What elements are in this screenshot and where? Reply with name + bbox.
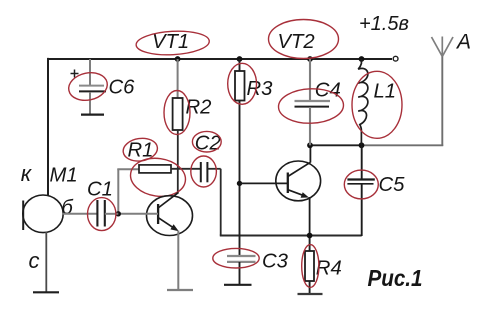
wire VT2 emitter down: [309, 197, 311, 236]
svg-text:Рис.1: Рис.1: [368, 265, 423, 291]
annotation ellipse around R1 body: [128, 155, 188, 200]
ground below R4: [298, 293, 323, 295]
annotation ellipse around R2: [164, 91, 190, 135]
capacitor C5: [347, 145, 374, 236]
inductor L1: [358, 59, 368, 145]
annotation ellipse around L1: [352, 71, 402, 138]
svg-text:VT2: VT2: [278, 31, 315, 53]
wire bottom line: [220, 235, 362, 237]
svg-text:с: с: [29, 248, 40, 273]
resistor R1: [117, 165, 200, 214]
node junction R3/VT2 base: [237, 181, 242, 186]
node junction VT1/R2 on rail: [175, 56, 181, 62]
wire left frame: [47, 58, 49, 197]
ground below VT1: [167, 289, 193, 291]
node open terminal +1.5v: [393, 56, 398, 61]
annotation ellipse around C3: [213, 248, 259, 268]
node junction emitter/R4: [307, 233, 313, 239]
annotation ellipse around C2 label: [192, 131, 221, 152]
capacitor C4: [295, 59, 331, 145]
svg-text:A: A: [455, 31, 471, 54]
node junction L1 on rail: [359, 56, 365, 62]
wire M1 output to C1: [63, 213, 97, 215]
svg-text:C5: C5: [379, 174, 406, 196]
wire VT1 base from C1: [118, 213, 158, 215]
wire top supply rail: [48, 58, 392, 60]
capacitor C2: [201, 162, 221, 182]
svg-text:R3: R3: [247, 78, 274, 100]
ground below M1: [33, 291, 59, 293]
transistor VT2: [276, 161, 321, 201]
antenna A: [432, 37, 454, 147]
annotation ellipse around C4: [278, 88, 344, 125]
ground below C3: [224, 284, 252, 286]
node junction VT2/C4 on rail: [307, 56, 313, 62]
wire C2 down to bottom line: [220, 169, 222, 236]
annotation ellipse around R1 label: [122, 136, 159, 163]
svg-text:L1: L1: [374, 80, 397, 102]
svg-text:к: к: [21, 161, 33, 186]
wire VT2 collector up: [309, 145, 311, 162]
capacitor C1: [97, 200, 118, 227]
wire collector node line: [310, 144, 363, 146]
resistor R4: [305, 236, 314, 295]
node junction L1 bottom: [359, 142, 365, 148]
annotation ellipse around VT1 label: [136, 29, 210, 56]
wire VT1 emitter down: [177, 231, 179, 291]
annotation ellipse around VT2 label: [269, 20, 339, 59]
annotation ellipse around R4: [302, 245, 319, 288]
transistor VT1: [147, 192, 193, 235]
svg-text:M1: M1: [50, 165, 78, 187]
svg-text:б: б: [62, 197, 74, 219]
svg-text:C2: C2: [195, 132, 221, 154]
annotation ellipse around C1: [88, 198, 116, 231]
annotation ellipse around C6: [66, 69, 110, 104]
svg-text:VT1: VT1: [152, 31, 189, 53]
resistor R3: [235, 59, 245, 255]
node junction C1/R1/base: [116, 211, 121, 216]
node junction R3 on rail: [237, 56, 243, 62]
capacitor C6: [71, 59, 107, 114]
annotation ellipse around C2 body: [191, 156, 217, 187]
svg-text:C3: C3: [262, 251, 289, 273]
wire VT2 base: [240, 182, 288, 184]
annotation ellipse around C5: [344, 170, 378, 199]
svg-text:C6: C6: [109, 77, 136, 99]
resistor R2: [173, 59, 183, 193]
annotation ellipse around R3: [228, 63, 257, 104]
node junction C4/collector: [307, 142, 313, 148]
ground below C6: [81, 113, 104, 115]
svg-text:+1.5в: +1.5в: [359, 13, 409, 35]
svg-text:C1: C1: [87, 178, 113, 200]
svg-text:R4: R4: [316, 258, 342, 280]
capacitor C3: [227, 256, 256, 285]
microphone M1: [23, 195, 63, 292]
